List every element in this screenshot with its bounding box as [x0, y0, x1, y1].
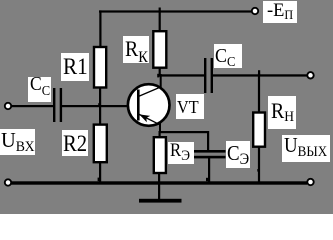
wire R1 bottom lead — [99, 88, 101, 107]
label R2 — [62, 130, 89, 157]
label UBX input voltage — [0, 129, 35, 155]
resistor R2 — [94, 125, 107, 163]
junction nub collector node — [157, 74, 159, 78]
wire emitter vertical — [159, 124, 161, 134]
junction nub base node — [98, 103, 100, 106]
resistor RK — [153, 31, 166, 67]
capacitor CC1 input plates — [53, 88, 62, 122]
wire emitter node to Ce branch — [159, 131, 210, 133]
wire Cc to base — [62, 105, 138, 107]
wire Ce top lead — [207, 131, 209, 151]
capacitor CE plates — [191, 150, 226, 158]
resistor RH — [253, 113, 265, 147]
resistor RE — [154, 137, 166, 173]
label CC2 — [214, 44, 243, 68]
terminal -EP supply — [252, 8, 258, 14]
label UBYX output voltage — [282, 135, 330, 163]
transistor VT — [128, 84, 170, 126]
resistor R1 — [94, 47, 106, 88]
junction nub CE bottom — [206, 178, 208, 181]
wire Ce bottom lead — [208, 157, 210, 183]
wire R2 top lead — [99, 105, 101, 125]
wire R1 top lead — [99, 10, 101, 47]
terminal output bottom — [307, 179, 313, 185]
wire Re top lead — [159, 131, 161, 138]
wire R2 bottom lead — [99, 162, 101, 183]
wire RH top lead — [258, 74, 260, 113]
terminal output top — [307, 72, 313, 78]
label -EP supply — [263, 1, 297, 23]
wire collector node to Cc2 — [159, 74, 205, 76]
wire RK top lead — [159, 8, 161, 32]
wire bottom rail — [11, 181, 307, 184]
label RE — [168, 142, 194, 165]
terminal input bottom — [5, 179, 11, 185]
ground — [139, 199, 182, 203]
wire input to Cc — [11, 105, 53, 107]
wire Re bottom lead to ground — [158, 174, 160, 200]
label CE — [226, 141, 250, 168]
wire collector vertical — [160, 74, 162, 89]
wire RK bottom lead — [159, 68, 161, 77]
label RH load — [268, 96, 296, 129]
wire Cc2 to output terminal — [213, 74, 307, 76]
junction nub R2 bottom — [98, 178, 100, 182]
wire top rail — [99, 10, 252, 12]
junction nub RH lead — [257, 169, 259, 172]
capacitor CC2 output plates — [204, 58, 213, 93]
label RK — [123, 36, 149, 63]
wire RH junction tick — [258, 70, 260, 76]
wire RH bottom lead — [258, 147, 260, 183]
label CC1 — [28, 77, 51, 103]
label R1 — [61, 53, 89, 81]
label VT — [176, 94, 204, 119]
terminal input top — [5, 103, 11, 109]
